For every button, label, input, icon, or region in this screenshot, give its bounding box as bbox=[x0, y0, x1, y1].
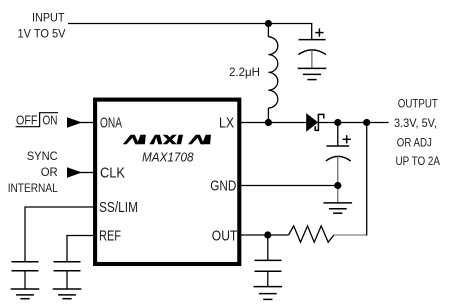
wire GND bbox=[241, 185, 338, 187]
label INPUT bbox=[18, 10, 66, 40]
logo MAXIM bbox=[123, 135, 211, 145]
svg-text:2.2μH: 2.2μH bbox=[229, 65, 260, 79]
node: LX/inductor junction bbox=[265, 119, 272, 126]
ground (C2) bbox=[11, 289, 40, 299]
ground (input cap) bbox=[298, 68, 327, 79]
svg-text:SYNC: SYNC bbox=[27, 149, 58, 163]
svg-text:1V TO 5V: 1V TO 5V bbox=[18, 26, 66, 40]
IC U1 MAX1708 bbox=[95, 100, 239, 264]
wire: input rail bbox=[68, 24, 312, 40]
svg-text:OUT: OUT bbox=[212, 228, 238, 244]
wire CLK bbox=[80, 172, 94, 174]
wire REF bbox=[67, 236, 94, 262]
inductor L1 bbox=[268, 24, 277, 123]
wire LX bbox=[241, 122, 307, 124]
label: C1 plus sign bbox=[315, 29, 323, 37]
resistor R1 bbox=[289, 226, 334, 242]
svg-text:3.3V, 5V,: 3.3V, 5V, bbox=[394, 116, 437, 130]
label OUTPUT block bbox=[394, 97, 440, 168]
label SYNC OR INTERNAL bbox=[8, 149, 58, 195]
label: C4 plus sign bbox=[343, 135, 351, 143]
svg-text:ONA: ONA bbox=[100, 115, 122, 131]
ground (C3) bbox=[53, 289, 82, 299]
svg-text:OR: OR bbox=[41, 165, 58, 179]
capacitor C4 (output, polarized) bbox=[326, 123, 351, 203]
wire OUT bbox=[241, 234, 289, 236]
svg-text:LX: LX bbox=[219, 115, 234, 131]
ground (output cap) bbox=[324, 203, 353, 213]
wire: feedback drop bbox=[366, 123, 368, 236]
capacitor C2 (SS/LIM) bbox=[12, 262, 39, 289]
node: GND/cap junction bbox=[334, 182, 341, 189]
svg-text:ON: ON bbox=[43, 113, 58, 127]
svg-text:INPUT: INPUT bbox=[32, 10, 65, 24]
svg-text:SS/LIM: SS/LIM bbox=[99, 200, 138, 216]
svg-text:OR ADJ: OR ADJ bbox=[397, 135, 432, 149]
wire SS/LIM bbox=[25, 207, 94, 262]
svg-text:OFF: OFF bbox=[16, 113, 38, 127]
wire: resistor to feedback bbox=[334, 234, 367, 236]
svg-text:CLK: CLK bbox=[100, 165, 125, 181]
node: feedback junction bbox=[363, 119, 370, 126]
capacitor C5 (OUT) bbox=[255, 235, 282, 286]
node: input/inductor junction bbox=[265, 20, 272, 27]
wire ONA bbox=[80, 122, 94, 124]
capacitor C3 (REF) bbox=[54, 262, 81, 289]
svg-text:INTERNAL: INTERNAL bbox=[8, 181, 58, 195]
svg-text:MAX1708: MAX1708 bbox=[142, 149, 194, 164]
svg-text:UP TO 2A: UP TO 2A bbox=[396, 154, 441, 168]
svg-text:OUTPUT: OUTPUT bbox=[398, 97, 439, 111]
wire: diode to output bbox=[318, 122, 388, 124]
svg-text:GND: GND bbox=[210, 179, 236, 195]
svg-text:REF: REF bbox=[99, 228, 121, 244]
arrow into CLK bbox=[67, 167, 82, 177]
ground (C5) bbox=[254, 287, 283, 300]
node: output cap junction bbox=[334, 119, 341, 126]
diode D1 (Schottky) bbox=[306, 113, 324, 132]
arrow into ONA bbox=[67, 117, 82, 127]
node: OUT junction bbox=[264, 231, 271, 238]
label OFF/ON bbox=[16, 113, 58, 128]
capacitor C1 (input, polarized) bbox=[298, 40, 326, 69]
